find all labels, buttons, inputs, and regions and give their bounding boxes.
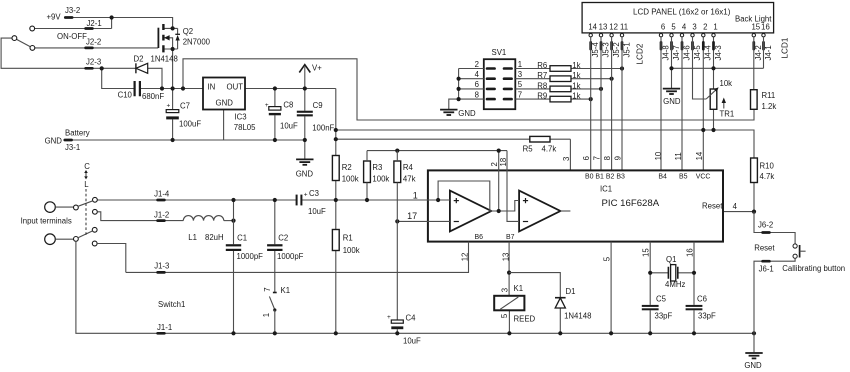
svg-text:J4-2: J4-2 [754, 45, 763, 60]
svg-text:6: 6 [475, 80, 479, 89]
svg-text:1k: 1k [572, 61, 580, 70]
svg-text:5: 5 [500, 313, 509, 318]
svg-text:R2: R2 [342, 163, 352, 172]
svg-text:1: 1 [713, 23, 717, 32]
svg-text:J5-2: J5-2 [612, 42, 621, 57]
svg-text:GND: GND [458, 109, 476, 118]
svg-text:14: 14 [588, 23, 597, 32]
svg-text:J6-2: J6-2 [758, 221, 773, 230]
svg-text:1k: 1k [572, 81, 580, 90]
svg-text:R10: R10 [760, 161, 775, 170]
svg-text:4: 4 [733, 202, 738, 211]
svg-text:J4-8: J4-8 [661, 45, 670, 60]
svg-text:GND: GND [744, 361, 762, 370]
svg-text:B3: B3 [616, 173, 625, 180]
svg-text:1k: 1k [572, 92, 580, 101]
svg-text:10uF: 10uF [308, 207, 326, 216]
svg-text:5: 5 [518, 80, 523, 89]
svg-text:1000pF: 1000pF [277, 252, 304, 261]
svg-text:33pF: 33pF [698, 311, 716, 320]
svg-text:1: 1 [413, 190, 418, 200]
svg-text:3: 3 [562, 157, 571, 161]
svg-text:LCD1: LCD1 [781, 37, 790, 58]
svg-text:14: 14 [695, 151, 704, 160]
svg-text:4: 4 [475, 70, 480, 79]
svg-text:3: 3 [518, 70, 522, 79]
svg-text:+: + [304, 192, 308, 199]
svg-text:4MHz: 4MHz [665, 280, 685, 289]
svg-text:K1: K1 [281, 286, 291, 295]
svg-text:5: 5 [671, 23, 676, 32]
svg-text:GND: GND [216, 99, 234, 108]
svg-text:15: 15 [642, 248, 651, 257]
svg-text:J2-3: J2-3 [86, 58, 101, 67]
svg-text:R3: R3 [372, 163, 382, 172]
svg-text:R9: R9 [537, 92, 547, 101]
svg-text:7: 7 [518, 90, 522, 99]
svg-text:100k: 100k [343, 246, 360, 255]
svg-text:+: + [265, 102, 269, 109]
svg-text:J5-1: J5-1 [622, 42, 631, 57]
svg-text:+: + [167, 102, 171, 109]
svg-text:L: L [84, 180, 89, 189]
svg-text:R5: R5 [523, 144, 534, 153]
svg-text:12: 12 [609, 23, 618, 32]
svg-text:Reset: Reset [702, 201, 723, 210]
svg-text:2: 2 [475, 60, 479, 69]
svg-text:4.7k: 4.7k [760, 172, 775, 181]
svg-text:B7: B7 [506, 234, 515, 241]
svg-text:C3: C3 [309, 189, 319, 198]
svg-text:16: 16 [686, 248, 695, 257]
svg-text:D2: D2 [134, 54, 144, 63]
svg-text:18: 18 [499, 158, 508, 167]
svg-text:R4: R4 [403, 163, 414, 172]
svg-text:47k: 47k [403, 175, 416, 184]
svg-text:IN: IN [208, 83, 216, 92]
svg-text:8: 8 [475, 90, 479, 99]
svg-text:C4: C4 [406, 314, 417, 323]
svg-text:GND: GND [296, 169, 314, 178]
svg-text:J4-1: J4-1 [764, 45, 773, 60]
svg-text:1.2k: 1.2k [762, 102, 777, 111]
svg-text:6: 6 [661, 23, 665, 32]
svg-text:LCD PANEL (16x2 or 16x1): LCD PANEL (16x2 or 16x1) [633, 8, 731, 17]
svg-text:8: 8 [603, 156, 612, 160]
svg-text:33pF: 33pF [655, 311, 673, 320]
svg-text:12: 12 [460, 253, 469, 262]
svg-text:ON-OFF: ON-OFF [57, 32, 87, 41]
svg-text:10k: 10k [720, 79, 733, 88]
svg-text:C6: C6 [697, 295, 707, 304]
svg-text:J1-3: J1-3 [154, 261, 169, 270]
svg-text:Callibrating button: Callibrating button [782, 264, 845, 273]
svg-text:100k: 100k [342, 175, 359, 184]
svg-text:J1-1: J1-1 [157, 323, 172, 332]
svg-text:1000pF: 1000pF [237, 252, 264, 261]
svg-text:15: 15 [751, 23, 760, 32]
svg-text:7: 7 [263, 287, 272, 291]
svg-text:C8: C8 [283, 101, 293, 110]
svg-text:R6: R6 [537, 61, 547, 70]
svg-text:C: C [84, 162, 90, 171]
svg-text:R7: R7 [537, 71, 547, 80]
svg-text:680nF: 680nF [142, 92, 164, 101]
svg-text:J1-2: J1-2 [154, 210, 169, 219]
svg-text:6: 6 [582, 156, 591, 160]
svg-text:L1: L1 [188, 233, 197, 242]
svg-text:2N7000: 2N7000 [183, 37, 211, 46]
svg-text:SV1: SV1 [492, 48, 507, 57]
svg-text:C7: C7 [180, 102, 190, 111]
svg-text:V+: V+ [312, 63, 322, 72]
svg-text:1: 1 [518, 60, 522, 69]
svg-text:82uH: 82uH [205, 233, 224, 242]
svg-text:R1: R1 [343, 233, 353, 242]
svg-text:1N4148: 1N4148 [151, 54, 178, 63]
svg-text:C2: C2 [278, 234, 288, 243]
svg-text:J4-6: J4-6 [682, 45, 691, 60]
svg-text:13: 13 [599, 23, 608, 32]
svg-text:B0: B0 [585, 173, 594, 180]
svg-text:100k: 100k [372, 175, 389, 184]
svg-text:17: 17 [407, 211, 417, 221]
svg-text:REED: REED [514, 314, 536, 323]
svg-text:R8: R8 [537, 81, 547, 90]
svg-text:11: 11 [620, 23, 628, 32]
svg-text:3: 3 [692, 23, 696, 32]
svg-text:TR1: TR1 [720, 110, 735, 119]
svg-text:IC1: IC1 [600, 185, 612, 194]
svg-text:Q1: Q1 [666, 255, 676, 264]
svg-text:10: 10 [654, 151, 663, 160]
svg-text:B2: B2 [606, 173, 615, 180]
svg-text:7: 7 [593, 156, 602, 160]
svg-text:IC3: IC3 [235, 113, 247, 122]
svg-text:B4: B4 [658, 173, 667, 180]
svg-text:11: 11 [674, 152, 683, 160]
svg-text:78L05: 78L05 [234, 123, 256, 132]
svg-text:B1: B1 [595, 173, 604, 180]
svg-text:Switch1: Switch1 [158, 300, 185, 309]
svg-text:Battery: Battery [65, 129, 90, 138]
svg-text:C10: C10 [118, 91, 133, 100]
svg-text:PIC 16F628A: PIC 16F628A [602, 198, 660, 209]
svg-text:J1-4: J1-4 [154, 189, 170, 198]
svg-text:J4-3: J4-3 [714, 45, 723, 60]
svg-text:9: 9 [614, 156, 623, 160]
svg-text:J2-2: J2-2 [86, 37, 101, 46]
svg-text:VCC: VCC [696, 173, 711, 180]
svg-text:C5: C5 [656, 295, 667, 304]
svg-text:J6-1: J6-1 [759, 265, 774, 274]
svg-text:B5: B5 [679, 173, 688, 180]
svg-text:D1: D1 [566, 287, 576, 296]
svg-text:10uF: 10uF [403, 337, 421, 346]
svg-text:GND: GND [45, 136, 63, 145]
svg-text:B6: B6 [475, 234, 484, 241]
svg-text:1: 1 [262, 313, 271, 317]
svg-text:4: 4 [682, 23, 687, 32]
svg-text:1N4148: 1N4148 [564, 311, 591, 320]
svg-text:J3-1: J3-1 [65, 143, 80, 152]
svg-text:10uF: 10uF [280, 122, 298, 131]
svg-text:J3-2: J3-2 [65, 6, 80, 15]
svg-text:J2-1: J2-1 [87, 19, 102, 28]
svg-text:1k: 1k [572, 71, 580, 80]
svg-text:OUT: OUT [227, 83, 244, 92]
svg-text:J4-4: J4-4 [704, 45, 713, 61]
svg-text:C9: C9 [313, 101, 323, 110]
svg-text:13: 13 [502, 253, 511, 262]
svg-text:Q2: Q2 [183, 27, 193, 36]
svg-text:J5-3: J5-3 [601, 42, 610, 57]
svg-text:+9V: +9V [47, 13, 62, 22]
svg-text:LCD2: LCD2 [636, 43, 645, 64]
svg-text:3: 3 [500, 288, 509, 292]
svg-text:K1: K1 [514, 284, 524, 293]
svg-text:4.7k: 4.7k [542, 144, 557, 153]
svg-text:J5-4: J5-4 [591, 42, 600, 58]
svg-text:100uF: 100uF [179, 120, 201, 129]
svg-text:R11: R11 [762, 91, 776, 100]
svg-text:2: 2 [703, 23, 707, 32]
svg-text:J4-5: J4-5 [693, 45, 702, 61]
svg-text:GND: GND [663, 97, 681, 106]
svg-text:J4-7: J4-7 [672, 45, 681, 60]
svg-text:Reset: Reset [754, 244, 775, 253]
svg-text:100nF: 100nF [312, 123, 334, 132]
svg-text:C1: C1 [237, 234, 247, 243]
svg-text:Input terminals: Input terminals [21, 217, 72, 226]
svg-text:16: 16 [761, 23, 770, 32]
svg-text:+: + [387, 314, 391, 321]
svg-text:5: 5 [603, 256, 612, 261]
